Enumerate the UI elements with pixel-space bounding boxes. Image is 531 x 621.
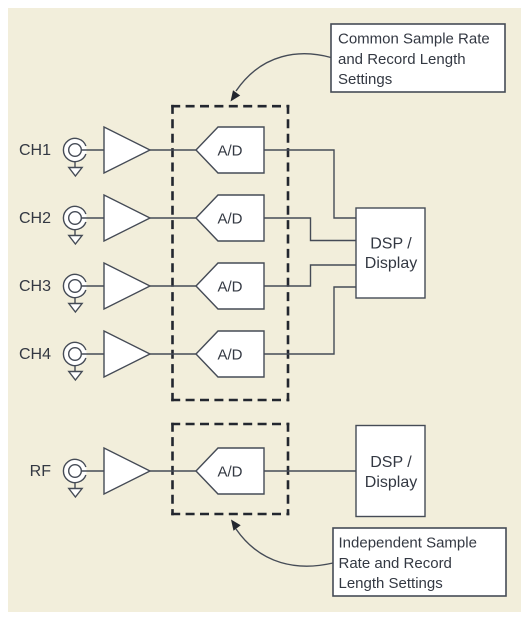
ground symbol below CH1 connector	[69, 162, 82, 176]
DSP / Display box (channels)	[356, 208, 425, 298]
ground symbol below CH4 connector	[69, 366, 82, 380]
svg-text:CH1: CH1	[19, 142, 51, 159]
amplifier CH1	[104, 127, 150, 173]
svg-text:RF: RF	[30, 463, 52, 480]
connector CH1 input BNC	[63, 138, 86, 161]
wire CH4 connector to amplifier	[81, 353, 104, 355]
wire CH1 A/D to DSP	[264, 150, 356, 218]
A/D converter RF	[196, 448, 264, 494]
A/D converter CH4	[196, 331, 264, 377]
dashed group box: independent RF A/D group	[171, 423, 289, 516]
wire CH3 A/D to DSP	[264, 265, 356, 286]
svg-text:CH2: CH2	[19, 210, 51, 227]
wire CH3 connector to amplifier	[81, 285, 104, 287]
wire RF connector to amplifier	[81, 470, 104, 472]
arrow from independent-settings note to RF A/D group	[231, 520, 333, 567]
svg-text:CH3: CH3	[19, 278, 51, 295]
wire CH2 A/D to DSP	[264, 218, 356, 241]
wire CH2 connector to amplifier	[81, 217, 104, 219]
ground symbol below CH3 connector	[69, 298, 82, 312]
wire CH2 amplifier to A/D	[150, 217, 196, 219]
svg-text:Display: Display	[365, 474, 417, 491]
callout note: independent sample rate settings	[333, 528, 506, 596]
svg-text:CH4: CH4	[19, 346, 51, 363]
svg-text:A/D: A/D	[217, 143, 242, 160]
wire CH4 A/D to DSP	[264, 287, 356, 354]
DSP / Display box (RF)	[356, 426, 425, 517]
svg-text:A/D: A/D	[217, 279, 242, 296]
wire RF amplifier to A/D	[150, 470, 196, 472]
callout note: common sample rate settings	[331, 24, 505, 92]
wire CH1 amplifier to A/D	[150, 149, 196, 151]
arrow from common-settings note to A/D group	[231, 54, 332, 102]
wire CH4 amplifier to A/D	[150, 353, 196, 355]
svg-text:A/D: A/D	[217, 211, 242, 228]
dashed group box: common sample rate A/D group	[171, 105, 289, 401]
ground symbol below CH2 connector	[69, 230, 82, 244]
A/D converter CH1	[196, 127, 264, 173]
connector CH2 input BNC	[63, 206, 86, 229]
svg-text:A/D: A/D	[217, 464, 242, 481]
svg-text:A/D: A/D	[217, 347, 242, 364]
A/D converter CH2	[196, 195, 264, 241]
connector CH4 input BNC	[63, 342, 86, 365]
connector CH3 input BNC	[63, 274, 86, 297]
A/D converter CH3	[196, 263, 264, 309]
wire CH3 amplifier to A/D	[150, 285, 196, 287]
svg-text:Independent Sample: Independent Sample	[339, 535, 477, 552]
wire CH1 connector to amplifier	[81, 149, 104, 151]
svg-text:DSP /: DSP /	[370, 236, 412, 253]
svg-text:and Record Length: and Record Length	[338, 51, 466, 68]
wire RF A/D to DSP	[264, 470, 356, 472]
connector RF input BNC	[63, 459, 86, 482]
amplifier CH4	[104, 331, 150, 377]
amplifier CH2	[104, 195, 150, 241]
svg-text:Display: Display	[365, 255, 417, 272]
amplifier RF	[104, 448, 150, 494]
svg-text:Length Settings: Length Settings	[339, 575, 443, 592]
svg-text:Settings: Settings	[338, 71, 392, 88]
svg-text:DSP /: DSP /	[370, 454, 412, 471]
amplifier CH3	[104, 263, 150, 309]
svg-text:Rate and Record: Rate and Record	[339, 555, 452, 572]
svg-text:Common Sample Rate: Common Sample Rate	[338, 31, 490, 48]
ground symbol below RF connector	[69, 483, 82, 497]
